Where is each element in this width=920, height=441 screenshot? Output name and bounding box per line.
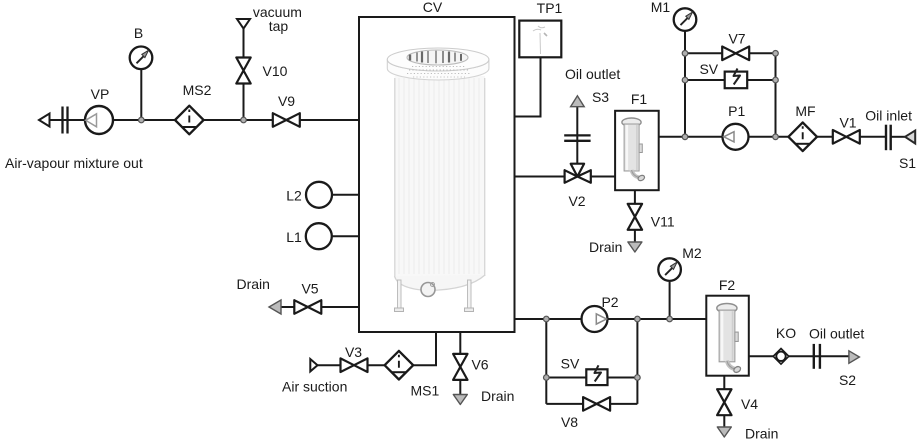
- svg-text:V3: V3: [345, 344, 362, 360]
- svg-text:V1: V1: [839, 115, 856, 131]
- three-way valve V2: [565, 164, 591, 183]
- svg-text:Drain: Drain: [589, 239, 622, 255]
- wire: V4 drain stem: [723, 376, 725, 427]
- gauge B: [130, 47, 153, 70]
- pump P2: [582, 306, 608, 332]
- svg-text:VP: VP: [91, 86, 110, 102]
- gauge M1: [674, 8, 697, 31]
- wire: M1 stem + left bypass vertical: [684, 31, 686, 137]
- svg-text:MF: MF: [795, 103, 815, 119]
- wire: SV branch (bottom): [546, 377, 637, 379]
- air suction inlet arrow: [310, 359, 317, 371]
- solenoid valve SV (bottom): [586, 369, 607, 385]
- wire: bottom main line (y=319): [515, 318, 707, 320]
- node junction below V10: [241, 117, 247, 123]
- svg-text:tap: tap: [269, 18, 289, 34]
- wire: bypass left vertical: [545, 319, 547, 404]
- check valve KO: [773, 349, 789, 365]
- wire: vacuum tap stem: [243, 28, 245, 120]
- node junction below M2: [667, 316, 673, 322]
- valve V10: [236, 58, 250, 84]
- svg-text:V10: V10: [263, 63, 288, 79]
- wire: air-vapour outlet main line y=120: [49, 119, 359, 121]
- valve V3: [341, 358, 368, 372]
- valve V8: [583, 397, 610, 411]
- TP1 probe sketch: [533, 26, 547, 54]
- valve V5: [294, 300, 321, 314]
- svg-text:Drain: Drain: [481, 388, 514, 404]
- svg-text:F1: F1: [631, 91, 648, 107]
- svg-text:M1: M1: [651, 0, 671, 15]
- svg-text:P1: P1: [728, 103, 745, 119]
- svg-text:L2: L2: [286, 188, 302, 204]
- svg-text:CV: CV: [423, 0, 443, 15]
- valve V1: [833, 130, 860, 144]
- svg-text:V2: V2: [568, 193, 585, 209]
- wire: flange to S1: [891, 136, 905, 138]
- inlet arrow S1 (light): [905, 131, 915, 144]
- svg-text:V9: V9: [278, 93, 295, 109]
- valve V9: [273, 113, 300, 127]
- svg-text:Oil outlet: Oil outlet: [565, 66, 620, 82]
- wire: V6 drain stem: [459, 332, 461, 395]
- wire: main oil line right (y=136.8): [659, 136, 886, 138]
- filter photo F2: [717, 304, 742, 374]
- level switch L1: [332, 235, 359, 237]
- wire: V11 drain stem: [634, 190, 636, 242]
- box TP1: [519, 21, 561, 58]
- pump VP: [85, 106, 113, 134]
- svg-text:S1: S1: [899, 155, 916, 171]
- wire: V5 drain line: [280, 306, 359, 308]
- svg-text:Air suction: Air suction: [282, 379, 347, 395]
- svg-text:SV: SV: [561, 356, 580, 372]
- outlet arrow S2 (gray, right): [849, 351, 860, 364]
- svg-text:MS2: MS2: [183, 82, 212, 98]
- wire: SV branch: [685, 79, 776, 81]
- svg-text:P2: P2: [601, 294, 618, 310]
- valve V6: [453, 354, 467, 380]
- valve V7: [722, 47, 749, 61]
- wire: F2 outlet line (y=356.3): [749, 355, 849, 357]
- svg-text:Drain: Drain: [237, 276, 270, 292]
- svg-text:V6: V6: [471, 357, 488, 373]
- wire: V7 branch: [685, 52, 776, 54]
- drain arrow (V6): [453, 395, 467, 405]
- filter MF: [788, 123, 817, 152]
- box F2: [706, 296, 749, 376]
- wire: air suction line: [318, 332, 437, 365]
- chamber CV box: [359, 17, 515, 332]
- flange (vacuum pump suction): [61, 107, 63, 134]
- svg-text:Air-vapour mixture out: Air-vapour mixture out: [5, 155, 143, 171]
- svg-text:B: B: [134, 25, 143, 41]
- svg-text:SV: SV: [699, 61, 718, 77]
- svg-text:V4: V4: [741, 396, 758, 412]
- wire: S3 stem: [576, 106, 578, 177]
- flange (oil outlet S2): [813, 344, 815, 369]
- arrow S3 (gray, up): [571, 96, 585, 107]
- svg-text:KO: KO: [776, 325, 796, 341]
- separator MS1: [385, 351, 414, 380]
- gauge M2: [658, 258, 681, 281]
- node junctions bypass top: [682, 51, 688, 57]
- filter photo F1: [622, 118, 646, 182]
- flange (oil inlet): [885, 125, 887, 151]
- drain arrow (V11): [628, 242, 642, 252]
- valve V11: [628, 204, 642, 230]
- wire: M2 stem: [669, 282, 671, 319]
- valve V4: [717, 389, 731, 415]
- svg-text:V5: V5: [301, 281, 318, 297]
- svg-text:V7: V7: [728, 31, 745, 47]
- svg-text:TP1: TP1: [537, 0, 563, 16]
- drain arrow left (gray): [269, 300, 281, 314]
- svg-text:Oil outlet: Oil outlet: [809, 326, 864, 342]
- separator MS2: [175, 106, 204, 135]
- wire: oil outlet top line from CV to F1 (y=176.5): [515, 176, 616, 178]
- outlet arrow (air-vapour mixture out): [39, 114, 50, 127]
- svg-text:F2: F2: [719, 277, 736, 293]
- wire: right bypass vertical: [775, 53, 777, 137]
- wire: TP1 to CV: [515, 57, 541, 116]
- box F1: [615, 111, 659, 190]
- wire: V8 branch: [546, 403, 637, 405]
- node junctions bottom: [544, 316, 550, 322]
- svg-text:V8: V8: [561, 414, 578, 430]
- svg-text:S3: S3: [592, 89, 609, 105]
- vessel photo inside CV: [387, 48, 489, 312]
- flange (S3): [564, 134, 590, 136]
- wire: stem to gauge B: [140, 69, 142, 120]
- svg-text:S2: S2: [839, 372, 856, 388]
- wire: bypass right vertical: [636, 319, 638, 404]
- svg-text:Drain: Drain: [745, 426, 778, 441]
- svg-text:MS1: MS1: [411, 383, 440, 399]
- svg-text:L1: L1: [286, 229, 302, 245]
- svg-text:M2: M2: [682, 245, 702, 261]
- vacuum tap open arrow: [237, 19, 250, 29]
- drain arrow (V4): [717, 427, 731, 437]
- pump P1: [723, 124, 749, 150]
- node junction below B: [139, 117, 145, 123]
- level switch L2: [332, 194, 359, 196]
- solenoid valve SV (top): [725, 72, 748, 89]
- svg-text:Oil inlet: Oil inlet: [865, 108, 912, 124]
- svg-text:V11: V11: [651, 214, 675, 230]
